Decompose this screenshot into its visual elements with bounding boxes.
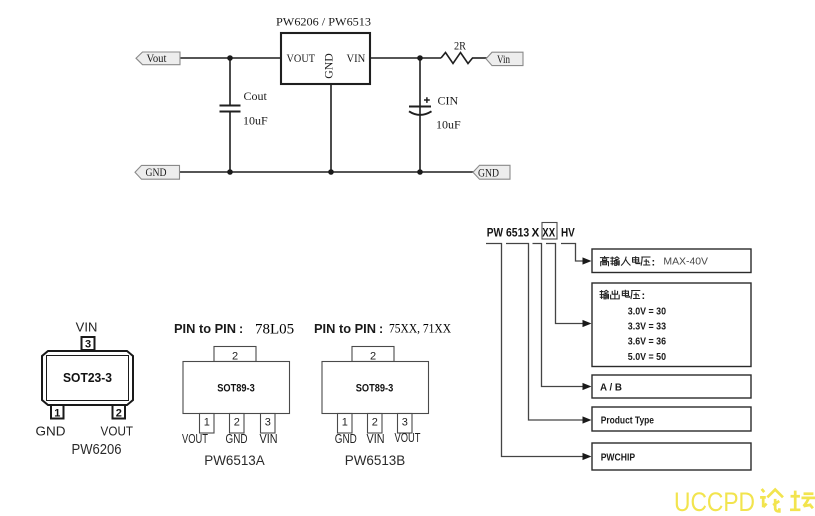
svg-text:CIN: CIN xyxy=(438,94,459,108)
svg-text:2: 2 xyxy=(116,408,122,420)
svg-text:3: 3 xyxy=(85,339,91,351)
svg-text:3.0V = 30: 3.0V = 30 xyxy=(628,306,666,318)
svg-text:VIN: VIN xyxy=(347,51,366,65)
svg-text:VOUT: VOUT xyxy=(182,432,208,446)
svg-text:Vout: Vout xyxy=(147,53,168,65)
svg-text:PW6513B: PW6513B xyxy=(345,453,406,469)
svg-text:Cout: Cout xyxy=(244,89,268,103)
svg-text:3: 3 xyxy=(265,417,271,429)
svg-text:PIN to PIN: PIN to PIN xyxy=(174,322,236,336)
svg-text:VOUT: VOUT xyxy=(101,424,134,439)
svg-text:SOT89-3: SOT89-3 xyxy=(356,382,394,394)
svg-text:75XX, 71XX: 75XX, 71XX xyxy=(389,322,451,336)
svg-text:SOT23-3: SOT23-3 xyxy=(63,370,112,385)
svg-text:1: 1 xyxy=(54,408,60,420)
svg-text:X: X xyxy=(532,225,540,239)
svg-text:6513: 6513 xyxy=(506,225,530,239)
svg-text::: : xyxy=(379,322,383,336)
svg-text::: : xyxy=(652,257,656,269)
svg-text:XX: XX xyxy=(542,225,555,239)
svg-text:78L05: 78L05 xyxy=(255,322,294,338)
svg-text:1: 1 xyxy=(342,417,348,429)
svg-text:3: 3 xyxy=(402,417,408,429)
svg-text:GND: GND xyxy=(146,167,167,179)
svg-text:2: 2 xyxy=(370,351,376,363)
svg-text:VIN: VIN xyxy=(76,320,98,335)
svg-text:10uF: 10uF xyxy=(436,118,461,132)
svg-text:GND: GND xyxy=(226,432,248,446)
svg-text:GND: GND xyxy=(322,53,336,79)
svg-text:Vin: Vin xyxy=(497,54,510,66)
svg-text:Product Type: Product Type xyxy=(601,415,654,427)
svg-text:HV: HV xyxy=(561,225,575,239)
svg-text:5.0V = 50: 5.0V = 50 xyxy=(628,351,666,363)
svg-text:GND: GND xyxy=(335,432,357,446)
svg-text:VOUT: VOUT xyxy=(395,431,421,445)
svg-text:VIN: VIN xyxy=(367,432,385,446)
svg-text:SOT89-3: SOT89-3 xyxy=(217,382,255,394)
svg-text:PWCHIP: PWCHIP xyxy=(601,451,635,463)
svg-text::: : xyxy=(239,322,243,336)
svg-text:UCCPD: UCCPD xyxy=(674,487,755,516)
svg-text:3.6V = 36: 3.6V = 36 xyxy=(628,335,666,347)
svg-text:PW6206: PW6206 xyxy=(72,442,122,458)
svg-text:A / B: A / B xyxy=(600,382,622,394)
svg-text::: : xyxy=(642,290,646,302)
svg-text:VOUT: VOUT xyxy=(287,51,316,65)
svg-text:PW: PW xyxy=(487,225,504,239)
svg-text:MAX-40V: MAX-40V xyxy=(663,256,708,267)
svg-text:1: 1 xyxy=(204,417,210,429)
svg-text:PIN to PIN: PIN to PIN xyxy=(314,322,376,336)
svg-text:2: 2 xyxy=(372,417,378,429)
svg-text:VIN: VIN xyxy=(260,432,278,446)
svg-text:3.3V = 33: 3.3V = 33 xyxy=(628,321,666,333)
svg-text:2: 2 xyxy=(232,351,238,363)
svg-text:PW6206 / PW6513: PW6206 / PW6513 xyxy=(276,15,371,29)
svg-text:2: 2 xyxy=(234,417,240,429)
svg-text:2R: 2R xyxy=(454,39,466,53)
svg-text:GND: GND xyxy=(478,167,499,179)
svg-text:10uF: 10uF xyxy=(243,114,268,128)
svg-text:GND: GND xyxy=(36,424,66,439)
svg-text:PW6513A: PW6513A xyxy=(204,453,265,469)
